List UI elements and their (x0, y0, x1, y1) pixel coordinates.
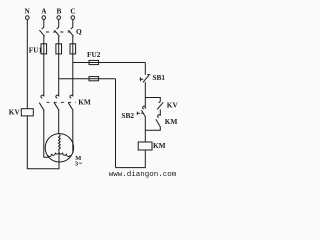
switch Q pole C blade (68, 30, 73, 36)
relay coil KV (21, 109, 33, 116)
switch Q pole C tick (71, 27, 73, 29)
pushbutton SB2 fixed contact hook (143, 106, 146, 109)
contactor KM linkage dashed (47, 101, 77, 103)
wire KV contact to KM contact (159, 109, 161, 115)
wire N bus vertical (26, 20, 28, 109)
pushbutton SB1 actuator (140, 77, 144, 81)
contact KV tick (159, 102, 161, 103)
wire junction to KV contact branch (145, 98, 160, 102)
svg-text:www.diangon.com: www.diangon.com (109, 171, 177, 179)
svg-text:FU2: FU2 (87, 50, 101, 59)
fuse FU2 lower (89, 77, 99, 81)
svg-text:FU1: FU1 (29, 45, 43, 54)
switch Q pole A tick (42, 27, 44, 29)
contactor KM main pole C blade (68, 103, 72, 110)
pushbutton SB1 stop blade (143, 75, 149, 82)
svg-text:SB2: SB2 (121, 111, 134, 120)
svg-text:KV: KV (167, 100, 179, 109)
terminal B (57, 16, 61, 20)
wire control left branch down (115, 79, 117, 168)
svg-text:Q: Q (76, 27, 82, 36)
svg-text:B: B (56, 7, 61, 16)
wire KM aux to junction (145, 126, 160, 130)
contact KM aux blade (156, 119, 160, 126)
wire C terminal to switch (72, 20, 74, 28)
switch Q pole A blade (39, 30, 44, 36)
wire B switch to KM contact (58, 36, 60, 96)
svg-text:C: C (70, 7, 75, 16)
wire A contact to motor (44, 109, 49, 157)
contactor KM main pole A blade (39, 103, 43, 110)
terminal A (42, 16, 46, 20)
svg-text:KM: KM (153, 141, 166, 150)
wire C tap to FU2 upper (73, 62, 146, 64)
motor M body circle (45, 134, 73, 162)
pushbutton SB1 seat tick (147, 74, 150, 76)
svg-text:KV: KV (9, 107, 21, 116)
svg-text:3~: 3~ (75, 160, 83, 167)
wire A switch to KM contact (43, 36, 45, 96)
svg-text:KM: KM (165, 117, 178, 126)
wire KM coil return (116, 150, 146, 168)
fuse FU1 pole B (56, 44, 62, 54)
wire KV coil to motor star point (27, 116, 59, 169)
motor winding left (48, 151, 59, 156)
contact KM aux fixed hook (158, 115, 161, 118)
contactor KM main pole B blade (54, 103, 58, 110)
svg-text:SB1: SB1 (152, 73, 165, 82)
wire B tap to FU2 lower (59, 78, 116, 80)
wire FU2 upper to SB1 (144, 63, 146, 75)
wire B contact to motor (58, 109, 60, 134)
wire A terminal to switch (43, 20, 45, 28)
switch Q pole B tick (57, 27, 59, 29)
fuse FU1 pole C (70, 44, 76, 54)
contact KV blade (157, 102, 163, 109)
contactor KM main pole B hook (56, 95, 59, 98)
terminal N (26, 16, 30, 20)
switch Q linkage dashed (46, 31, 75, 33)
contactor coil KM (138, 142, 152, 150)
motor winding right (59, 151, 70, 156)
svg-text:N: N (25, 7, 31, 16)
wire SB2 to KM coil (144, 117, 146, 142)
fuse FU2 upper (89, 60, 99, 64)
wire SB1 to junction (144, 82, 146, 109)
wire C contact to motor (72, 109, 74, 153)
svg-text:KM: KM (78, 97, 91, 106)
wire B terminal to switch (58, 20, 60, 28)
contactor KM main pole A hook (41, 95, 44, 98)
pushbutton SB2 actuator (137, 112, 142, 115)
wire C switch to KM contact (72, 36, 74, 96)
contactor KM main pole C hook (70, 95, 73, 98)
svg-text:A: A (41, 7, 47, 16)
switch Q pole B blade (54, 30, 59, 36)
motor winding top (59, 135, 61, 152)
fuse FU1 pole A (41, 44, 47, 54)
pushbutton SB2 start blade (142, 110, 146, 117)
terminal C (71, 16, 75, 20)
